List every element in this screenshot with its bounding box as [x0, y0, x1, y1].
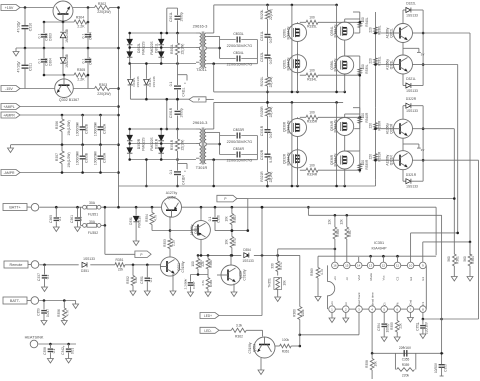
wire E1 out [423, 241, 472, 263]
svg-text:R369: R369 [310, 268, 314, 276]
wire IC pin row bottom joins [335, 308, 419, 310]
svg-text:R352: R352 [126, 276, 130, 284]
svg-text:KIA494P: KIA494P [372, 246, 387, 250]
svg-text:47/16V: 47/16V [17, 21, 21, 33]
svg-text:C331L: C331L [260, 31, 264, 41]
resistor R334L [300, 69, 360, 82]
ground pin1 [329, 312, 335, 322]
svg-text:IRFZ44N: IRFZ44N [334, 58, 338, 72]
svg-text:R339R: R339R [365, 159, 369, 170]
svg-text:R367: R367 [348, 229, 352, 237]
svg-text:1000/50V: 1000/50V [76, 121, 80, 136]
zener D304 [60, 48, 69, 75]
svg-text:10/50V: 10/50V [434, 362, 438, 373]
wire bridge mid rail L [130, 47, 196, 49]
svg-text:1000p: 1000p [386, 323, 390, 332]
wire IC pin row top joins [338, 264, 419, 266]
resistor R370 [225, 229, 238, 255]
svg-text:0.01: 0.01 [269, 156, 273, 163]
svg-text:+In: +In [330, 301, 334, 306]
wire bridge mid rail R [130, 143, 196, 145]
wire bridge bottom rail R [130, 159, 196, 161]
svg-text:Vref: Vref [357, 275, 361, 281]
svg-text:10k: 10k [225, 239, 229, 245]
resistor R336R [368, 120, 381, 131]
wire 220 column R [375, 108, 377, 180]
capacitor C333L [220, 32, 258, 48]
resistor R336L [368, 25, 381, 35]
wire heatsink line [38, 343, 76, 346]
wire far right return [442, 318, 479, 320]
svg-text:C301R: C301R [169, 107, 173, 118]
wire D354 rail [197, 254, 300, 257]
junction [166, 98, 179, 161]
transistor Q332L [283, 55, 307, 73]
wire fuse split [81, 207, 83, 225]
label 29616-3 L [193, 23, 208, 28]
svg-text:100: 100 [309, 16, 315, 20]
svg-text:C337: C337 [37, 273, 41, 281]
svg-text:Remote: Remote [10, 263, 23, 267]
wire remote line [39, 264, 161, 267]
net label LED- [200, 327, 219, 333]
capacitor C351 [140, 265, 153, 296]
capacitor C354 [377, 312, 390, 341]
svg-text:C3198y: C3198y [181, 261, 185, 272]
resistor R369 [310, 261, 324, 301]
svg-text:+AMPR: +AMPR [3, 114, 15, 118]
svg-text:0.1: 0.1 [46, 275, 50, 280]
svg-text:0.01: 0.01 [269, 58, 273, 65]
IC pin 15 [344, 262, 351, 280]
svg-text:R306: R306 [55, 121, 59, 129]
IC pin 12 [380, 262, 387, 280]
transistor Q321L [386, 55, 413, 74]
resistor R358 [365, 353, 377, 379]
svg-text:2.2K: 2.2K [77, 78, 85, 82]
svg-text:1N5245B: 1N5245B [65, 28, 69, 43]
svg-text:FMG22S: FMG22S [150, 137, 154, 151]
capacitor C337 [37, 265, 50, 292]
capacitor C311 [17, 48, 33, 89]
svg-text:10: 10 [409, 264, 413, 268]
transistor Q302 [55, 75, 74, 98]
capacitor C342 [61, 344, 74, 363]
svg-text:330: 330 [271, 263, 275, 269]
wire bridge R drop [145, 158, 148, 187]
resistor R353 [163, 216, 176, 257]
transistor Q352 [162, 191, 182, 217]
wire mosfet stubs R [298, 114, 360, 186]
svg-text:D301L: D301L [155, 43, 159, 53]
capacitor C305 [38, 22, 53, 48]
svg-text:3V: 3V [421, 148, 425, 152]
junction [166, 32, 179, 65]
svg-text:100k: 100k [301, 309, 305, 316]
svg-text:4.7K: 4.7K [66, 309, 70, 316]
diode D411L [128, 64, 133, 100]
svg-text:IRFZ44N: IRFZ44N [286, 152, 290, 166]
svg-text:Q336L: Q336L [330, 60, 334, 70]
label T301L [196, 68, 207, 72]
wire drain bus L1 [291, 5, 293, 92]
diode D354 [242, 248, 254, 263]
wire pin8 C1 [422, 312, 443, 320]
wire drain bus R1 [291, 102, 293, 186]
svg-text:C357: C357 [192, 281, 196, 289]
resistor R335L [300, 16, 360, 29]
diode D321R [403, 170, 423, 189]
wire T301R left pins [196, 129, 200, 158]
resistor R367 [340, 215, 352, 262]
transistor Q332R [283, 150, 307, 168]
capacitor C355 [399, 346, 412, 357]
diode D321L [403, 74, 423, 93]
svg-text:P: P [140, 253, 142, 257]
transistor Q321R [386, 151, 413, 170]
wire RC node [191, 273, 209, 276]
svg-text:C334R: C334R [233, 147, 245, 151]
wire error amp rail [318, 255, 436, 261]
wire Q351 emitter gnd [170, 274, 176, 296]
resistor R305 [74, 68, 87, 81]
wire T301L bottom end [206, 62, 257, 92]
svg-text:100: 100 [191, 261, 195, 267]
wire collector out L [413, 33, 424, 65]
transistor Q336L [330, 56, 354, 74]
svg-text:100: 100 [309, 69, 315, 73]
svg-text:D322L: D322L [406, 2, 416, 6]
wire mid rail [16, 47, 119, 49]
capacitor C411R [169, 160, 187, 188]
svg-text:C311: C311 [29, 63, 33, 71]
transistor Q330L [283, 24, 307, 42]
transformer T301L secondary coil [204, 33, 206, 68]
svg-text:16: 16 [333, 264, 337, 268]
svg-text:2200/35V/K7G: 2200/35V/K7G [227, 139, 253, 144]
svg-text:T301R: T301R [196, 166, 208, 170]
svg-text:T301L: T301L [196, 68, 207, 72]
wire R360 column [292, 255, 305, 347]
svg-text:BATT-: BATT- [10, 299, 21, 303]
svg-text:Q321L: Q321L [390, 59, 394, 69]
transformer T301L core [202, 32, 204, 69]
transformer T301L primary coil [200, 33, 202, 68]
wire T301R bottom end [206, 158, 257, 186]
junction [422, 32, 425, 66]
label 29616-3 R [193, 120, 208, 125]
capacitor C331R [260, 125, 273, 154]
wire bridge bottom rail L [130, 63, 196, 65]
junction [24, 6, 90, 9]
wire base wires L [374, 32, 393, 66]
junction [61, 114, 102, 117]
wire Q354 base [170, 230, 192, 232]
svg-text:R305: R305 [77, 68, 85, 72]
capacitor C352 [416, 319, 429, 339]
svg-text:1SS133: 1SS133 [406, 14, 418, 18]
svg-text:Q336R: Q336R [330, 154, 334, 165]
svg-text:C360: C360 [49, 215, 53, 223]
svg-text:29616-3: 29616-3 [193, 120, 208, 125]
svg-text:C351: C351 [140, 276, 144, 284]
resistor R365 [201, 275, 213, 297]
svg-text:0.1: 0.1 [208, 217, 212, 222]
svg-text:6.8k: 6.8k [134, 277, 138, 283]
capacitor C331L [260, 31, 273, 55]
net label P right [217, 195, 248, 230]
svg-text:R351: R351 [116, 258, 124, 262]
svg-text:FMG22S: FMG22S [150, 41, 154, 55]
svg-text:R354: R354 [145, 214, 149, 222]
svg-text:1000/50V: 1000/50V [76, 150, 80, 165]
wire emitter join L [403, 43, 424, 57]
diode D351 [81, 257, 95, 273]
svg-text:10k(1/2W): 10k(1/2W) [67, 152, 71, 167]
svg-text:0.1: 0.1 [82, 34, 86, 39]
resistor R361b [275, 338, 300, 354]
svg-text:R371: R371 [279, 262, 283, 270]
junction [422, 127, 425, 161]
svg-text:FU351: FU351 [88, 213, 98, 217]
IC pin 8 [420, 301, 427, 312]
svg-text:100: 100 [309, 111, 315, 115]
svg-text:12k: 12k [340, 219, 344, 225]
wire bridge top rail L [130, 32, 196, 34]
wire 220 bus span [375, 84, 377, 186]
svg-text:IRFZ44N: IRFZ44N [334, 153, 338, 167]
svg-text:Q321R: Q321R [390, 154, 394, 165]
svg-text:0.01: 0.01 [269, 132, 273, 139]
wire mosfet stubs L [298, 19, 360, 92]
svg-text:R363: R363 [233, 215, 237, 223]
wire L bank top rail [214, 4, 338, 7]
svg-text:R360: R360 [292, 309, 296, 317]
resistor R306 [55, 115, 71, 145]
wire emitter join R [403, 138, 424, 152]
svg-text:1SS133: 1SS133 [406, 185, 418, 189]
svg-text:2.2k: 2.2k [171, 240, 175, 246]
svg-text:R335R: R335R [307, 120, 318, 124]
resistor R331L [368, 56, 381, 66]
capacitor C360 [49, 207, 62, 231]
svg-text:dead time: dead time [370, 292, 374, 306]
svg-text:0.1: 0.1 [38, 59, 42, 64]
svg-text:E2: E2 [409, 276, 413, 280]
svg-text:Q330L: Q330L [283, 28, 287, 38]
wire pin3 feedback [299, 312, 360, 336]
junction [61, 143, 102, 146]
transformer T301R core [202, 128, 204, 165]
transistor Q355 [217, 255, 247, 296]
svg-text:-In: -In [344, 302, 348, 306]
svg-text:HEATSINK: HEATSINK [25, 335, 44, 339]
wire thermistor sense [278, 248, 337, 256]
svg-text:IRFZ44N: IRFZ44N [334, 24, 338, 38]
svg-text:C361: C361 [70, 215, 74, 223]
terminal BATT- [3, 297, 39, 305]
capacitor C303B [76, 145, 89, 173]
svg-text:2.2K: 2.2K [77, 25, 85, 29]
resistor R364b [191, 255, 203, 274]
capacitor C358 [43, 344, 56, 363]
resistor R304 [74, 16, 87, 29]
svg-text:1000/50V: 1000/50V [94, 121, 98, 136]
svg-text:R355: R355 [390, 322, 394, 330]
transistor Q353 [248, 337, 275, 358]
label diodes L [137, 41, 159, 55]
svg-text:IRFZ44N: IRFZ44N [334, 119, 338, 133]
svg-text:-AMPR: -AMPR [4, 171, 15, 175]
capacitor C332L [260, 52, 273, 77]
transistor Q354 [190, 221, 211, 240]
wire +AMPL [20, 106, 119, 108]
svg-text:BATT+: BATT+ [9, 206, 20, 210]
transistor Q330R [283, 119, 307, 137]
svg-text:-In: -In [345, 277, 349, 281]
svg-text:C302B: C302B [85, 123, 89, 134]
svg-text:C355: C355 [402, 358, 410, 362]
svg-text:Ct: Ct [382, 302, 386, 305]
wire LED- run [219, 330, 263, 336]
svg-text:D301R: D301R [155, 138, 159, 149]
wire lower rail [130, 98, 190, 101]
capacitor C301L [169, 8, 184, 33]
wire bottom batt rail [119, 185, 376, 188]
net label P left [189, 97, 214, 102]
wire right rail [118, 8, 120, 208]
svg-text:C304: C304 [89, 32, 93, 40]
IC pin 13 [367, 262, 374, 280]
svg-text:R361: R361 [456, 256, 460, 264]
svg-text:R364: R364 [471, 256, 475, 264]
wire drain bus L2 [336, 5, 338, 92]
wire T301L center tap [206, 47, 219, 50]
svg-text:Q352: Q352 [167, 196, 175, 200]
ground [13, 48, 19, 56]
diode pair FMG22S [158, 128, 164, 161]
IC pin 10 [407, 262, 414, 280]
svg-text:C342: C342 [61, 347, 65, 355]
svg-text:C332L: C332L [260, 52, 264, 62]
wire collector out R [413, 129, 424, 161]
resistor R351 [115, 258, 125, 271]
wire -AMPR rail [20, 172, 119, 174]
svg-text:0.1: 0.1 [79, 217, 83, 222]
svg-text:0.1: 0.1 [58, 217, 62, 222]
junction [117, 6, 120, 174]
svg-text:R340R: R340R [365, 112, 369, 123]
svg-text:R303: R303 [99, 83, 107, 87]
wire Q322R out [423, 129, 454, 199]
svg-text:Q353: Q353 [252, 344, 256, 352]
svg-text:D321R: D321R [406, 173, 417, 177]
svg-text:C332R: C332R [260, 149, 264, 160]
svg-text:220/16V: 220/16V [399, 346, 412, 350]
svg-text:A1274y: A1274y [166, 191, 178, 195]
svg-text:Gnd: Gnd [409, 299, 413, 305]
svg-text:220/16V: 220/16V [425, 321, 429, 334]
svg-text:4.7k: 4.7k [201, 280, 205, 286]
svg-text:R362: R362 [235, 334, 243, 338]
svg-text:15: 15 [345, 264, 349, 268]
wire pin4 deadtime [371, 312, 373, 353]
svg-text:R361: R361 [282, 350, 290, 354]
IC pin 1 [329, 301, 336, 312]
svg-text:D351: D351 [81, 269, 89, 273]
svg-text:R334R: R334R [307, 173, 318, 177]
svg-text:R304: R304 [76, 16, 84, 20]
svg-text:1000p: 1000p [180, 12, 184, 21]
svg-text:D303: D303 [49, 33, 53, 41]
svg-text:Q332R: Q332R [283, 153, 287, 164]
transistor Q322R [386, 119, 413, 138]
svg-text:R370: R370 [233, 238, 237, 246]
wire drain bus R2 [336, 102, 338, 186]
wire R bank bottom rail [268, 185, 347, 188]
resistor R368 [328, 215, 340, 262]
svg-text:D302R: D302R [137, 138, 141, 149]
wire gate column R [353, 108, 369, 129]
capacitor C304 [82, 8, 93, 49]
diode D412L [144, 62, 150, 99]
label diodes R [137, 137, 159, 151]
wire gate column2 R [358, 152, 369, 173]
resistor R307 [55, 145, 71, 173]
svg-text:R301R: R301R [170, 139, 174, 150]
svg-text:FMG22S: FMG22S [142, 137, 146, 151]
wire Q322L out [423, 33, 470, 255]
transformer T301R secondary coil [204, 129, 206, 164]
resistor R354 [145, 207, 170, 230]
svg-text:0.047: 0.047 [46, 309, 50, 317]
junction [104, 206, 154, 227]
svg-text:C3198y: C3198y [248, 342, 252, 353]
svg-text:1SS133: 1SS133 [136, 76, 140, 87]
svg-text:22(1W): 22(1W) [269, 9, 273, 20]
svg-text:220(3W): 220(3W) [97, 10, 110, 14]
svg-text:100: 100 [309, 164, 315, 168]
wire BATT- line [39, 299, 79, 308]
wire emitter rail top [44, 21, 74, 23]
svg-text:C352: C352 [416, 323, 420, 331]
svg-text:LED-: LED- [204, 329, 211, 333]
resistor R359 [395, 353, 415, 377]
svg-text:Q332L: Q332L [283, 59, 287, 69]
zener D303 [60, 22, 69, 48]
diode D331 TVS [129, 207, 142, 245]
wire Q354 collector [200, 207, 202, 255]
capacitor C411L [169, 64, 187, 100]
IC pin 5 [381, 302, 388, 312]
svg-text:11: 11 [396, 264, 399, 268]
svg-text:Rt: Rt [395, 302, 399, 305]
svg-text:IRFZ44N: IRFZ44N [286, 26, 290, 40]
IC pin 4 [369, 292, 376, 312]
svg-text:D331: D331 [129, 217, 133, 225]
svg-text:560: 560 [447, 256, 451, 262]
wire cap ladder L left [206, 36, 221, 58]
svg-text:C307: C307 [89, 57, 93, 65]
svg-text:feed back: feed back [357, 292, 361, 306]
resistor R364 [463, 242, 475, 281]
svg-text:Q302 B1367: Q302 B1367 [59, 98, 79, 102]
svg-text:0.1: 0.1 [169, 170, 173, 175]
IC pin 6 [394, 302, 401, 312]
capacitor C301R [169, 107, 184, 129]
diode pair FMG22S [158, 32, 164, 65]
label Q302 [59, 98, 79, 102]
